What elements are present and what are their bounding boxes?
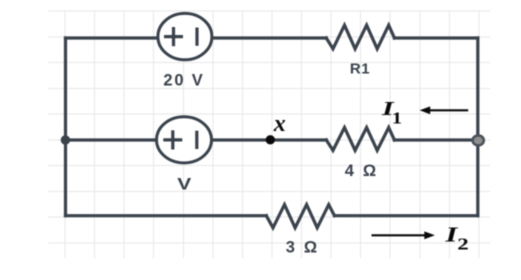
svg-text:1: 1 xyxy=(392,109,402,128)
svg-text:R1: R1 xyxy=(350,61,370,78)
svg-text:2: 2 xyxy=(457,235,468,254)
svg-text:20 V: 20 V xyxy=(163,72,204,90)
svg-text:x: x xyxy=(273,111,286,137)
svg-text:4 Ω: 4 Ω xyxy=(345,162,379,180)
svg-text:I: I xyxy=(444,223,458,246)
svg-text:3 Ω: 3 Ω xyxy=(286,238,320,256)
svg-text:V: V xyxy=(177,175,191,193)
